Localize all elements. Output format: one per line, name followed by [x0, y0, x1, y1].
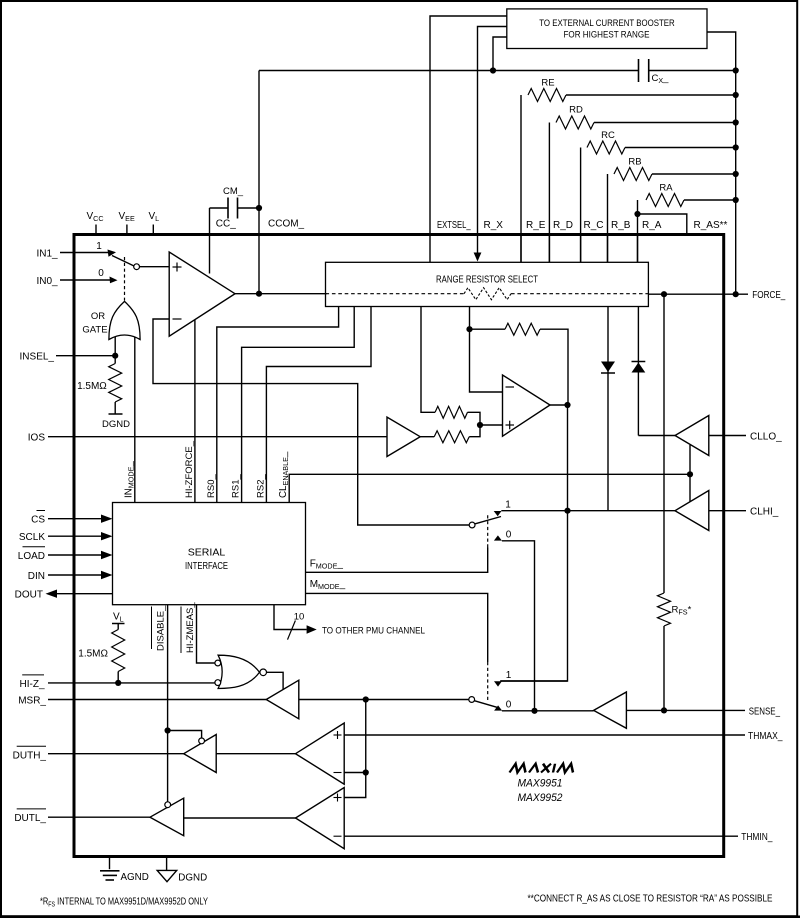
svg-text:10: 10 — [294, 612, 305, 623]
junction dot FORCE/RFS — [661, 291, 667, 297]
junction dot gain resistors — [477, 422, 483, 428]
svg-text:THMAX_: THMAX_ — [748, 731, 783, 742]
wire CCOM_ — [258, 71, 260, 294]
wire HI-ZFORCE_ — [194, 320, 196, 503]
svg-text:AGND: AGND — [121, 872, 149, 883]
wire RS0_ — [217, 307, 339, 503]
wire THMAX comp minus — [344, 772, 366, 774]
wire clamp low net — [638, 435, 675, 437]
buffer IOS — [387, 417, 420, 456]
svg-text:DUTH_: DUTH_ — [13, 751, 47, 762]
buffer MSR — [266, 680, 299, 719]
svg-text:R_E: R_E — [526, 220, 546, 231]
resistor feedback — [470, 328, 506, 330]
main chip box outline — [74, 235, 724, 857]
svg-text:R_AS**: R_AS** — [694, 220, 728, 231]
MAXIM logo — [510, 764, 576, 773]
pin THMIN_ — [344, 835, 738, 837]
junction dot feedback resistor — [466, 326, 472, 332]
svg-text:DOUT: DOUT — [15, 590, 43, 601]
junction dot comparator minus — [363, 769, 369, 775]
input switch pivot — [134, 264, 140, 270]
wire booster to right bus — [707, 32, 736, 294]
svg-text:IOS: IOS — [28, 433, 46, 444]
wire RS2_ — [266, 307, 371, 503]
junction dot sense/fmode0 — [531, 708, 537, 714]
resistor RC — [580, 148, 582, 263]
input switch control dashed line — [124, 257, 126, 301]
junction dot DISABLE — [165, 727, 171, 733]
svg-text:CLHI_: CLHI_ — [750, 507, 779, 518]
svg-text:INTERFACE: INTERFACE — [185, 561, 228, 572]
arrow into range resistor select — [474, 253, 482, 262]
wire booster to EXTSEL_ — [430, 16, 507, 262]
OR gate right input wire (INMODE_) — [134, 337, 136, 503]
svg-text:TO OTHER PMU CHANNEL: TO OTHER PMU CHANNEL — [322, 625, 426, 636]
junction dot RD/right bus — [733, 119, 739, 125]
wire RFS to SENSE — [663, 626, 665, 710]
svg-text:0: 0 — [506, 700, 512, 711]
wire NOR output to MSR buffer enable — [267, 672, 284, 690]
junction dot RB/right bus — [733, 171, 739, 177]
wire THMIN comp out — [184, 817, 296, 819]
svg-text:R_A: R_A — [642, 220, 662, 231]
junction dot CCOM/booster — [490, 67, 496, 73]
svg-text:MAX9951: MAX9951 — [518, 778, 563, 790]
svg-text:OR: OR — [91, 311, 105, 322]
NOR gate — [218, 655, 259, 688]
svg-text:1: 1 — [506, 670, 512, 681]
junction dot CX/right bus — [733, 67, 739, 73]
capacitor CM_ — [210, 207, 229, 209]
junction dot CM/CCOM — [256, 205, 262, 211]
comparator THMIN — [296, 788, 345, 849]
RRS top pins — [520, 236, 522, 262]
svg-text:DGND: DGND — [178, 873, 207, 884]
svg-text:R_B: R_B — [611, 220, 631, 231]
wire measure amp output — [550, 404, 568, 406]
svg-text:R_C: R_C — [584, 220, 604, 231]
wire MMODE contact0 to sense net — [502, 710, 594, 712]
svg-text:1.5MΩ: 1.5MΩ — [78, 649, 108, 660]
wire force amp output — [235, 293, 327, 295]
svg-text:RS2_: RS2_ — [255, 474, 266, 498]
svg-text:SERIAL: SERIAL — [188, 548, 226, 559]
buffer SENSE — [594, 692, 627, 728]
pin VEE — [126, 225, 128, 235]
wire diode D1 — [607, 307, 609, 511]
svg-text:RC: RC — [601, 130, 615, 141]
junction dot RA/R_AS — [634, 211, 640, 217]
svg-text:MAX9952: MAX9952 — [518, 792, 563, 804]
buffer CLLO — [675, 416, 709, 456]
junction dot CLENABLE — [687, 471, 693, 477]
svg-text:CCOM_: CCOM_ — [268, 219, 305, 230]
resistor upper gain — [435, 406, 467, 418]
label RS0_ (rotated) — [206, 474, 217, 498]
DUTL enable bubble — [165, 802, 171, 808]
wire force amp minus feedback — [153, 319, 469, 525]
wire FORCE to RFS — [663, 294, 665, 593]
switch MMODE contact 1 — [494, 681, 502, 686]
svg-text:CM_: CM_ — [223, 186, 244, 197]
svg-text:DISABLE_: DISABLE_ — [156, 605, 167, 651]
junction dot RC/right bus — [733, 144, 739, 150]
label CLENABLE_ (rotated) — [278, 451, 290, 498]
capacitor CX_ — [638, 59, 640, 82]
input switch arm — [112, 256, 134, 267]
wire MMODE contact1 to measure out — [500, 680, 567, 682]
force amp + sign — [173, 266, 182, 268]
bus slash — [288, 621, 296, 640]
RRS internal resistor symbol — [464, 288, 511, 300]
wire booster to CCOM node — [493, 37, 507, 71]
wire CC_ — [209, 208, 211, 274]
wire MSR buffer input — [299, 699, 469, 701]
svg-text:FORCE_: FORCE_ — [752, 290, 785, 301]
switch FMODE pivot — [469, 522, 475, 528]
svg-text:MSR_: MSR_ — [18, 696, 46, 707]
force amp - sign — [173, 318, 182, 320]
junction dot MSR/comparators — [363, 696, 369, 702]
svg-text:LOAD: LOAD — [18, 551, 45, 562]
label INMODE_ (rotated) — [123, 461, 135, 498]
switch MMODE arm — [474, 701, 497, 708]
svg-text:SCLK: SCLK — [19, 532, 45, 543]
svg-text:HI-ZFORCE_: HI-ZFORCE_ — [184, 440, 195, 498]
buffer DUTL — [150, 798, 184, 836]
svg-text:1: 1 — [96, 241, 102, 252]
svg-text:FOR HIGHEST RANGE: FOR HIGHEST RANGE — [564, 30, 650, 40]
svg-text:RS1_: RS1_ — [231, 474, 242, 498]
buffer DUTH — [184, 735, 217, 773]
wire RRS to mid op-amp - — [470, 307, 503, 393]
svg-text:GATE: GATE — [82, 325, 107, 336]
diode D1 — [601, 362, 615, 373]
THMAX comp - sign — [334, 772, 342, 774]
svg-text:RD: RD — [569, 105, 583, 116]
junction dot HI-Z/pullup — [115, 680, 121, 686]
junction dot SENSE/RFS — [661, 707, 667, 713]
pin CLLO_ — [709, 435, 746, 437]
OR gate left input wire — [114, 337, 116, 356]
wire HI-ZMEAS_ — [197, 605, 215, 663]
overline DISABLE_ — [151, 607, 153, 650]
wire RS1_ — [242, 307, 355, 503]
ground DGND (INSEL) — [109, 413, 123, 415]
switch FMODE contact 1 — [494, 511, 502, 516]
switch FMODE contact 0 — [494, 535, 502, 540]
wire FMODE contact1 to clamp-hi — [501, 510, 567, 512]
wire clamp high net — [568, 510, 676, 512]
resistor RB — [607, 174, 609, 262]
junction dot RA/right bus — [733, 197, 739, 203]
bus to other PMU channel — [274, 605, 307, 630]
measure amp - sign — [506, 386, 515, 388]
svg-text:CC_: CC_ — [216, 219, 236, 230]
junction dot measure output — [564, 402, 570, 408]
wire THMAX comp out — [216, 753, 295, 755]
svg-text:RB: RB — [628, 157, 641, 168]
THMIN comp - sign — [334, 835, 342, 837]
switch MMODE pivot — [469, 697, 475, 703]
svg-text:1: 1 — [505, 500, 511, 511]
junction dot FORCE/right bus — [733, 291, 739, 297]
junction dot RE/right bus — [733, 92, 739, 98]
label RS2_ (rotated) — [255, 474, 266, 498]
overline HI-ZMEAS_ — [180, 607, 182, 654]
pin THMAX_ — [344, 734, 745, 736]
resistor RA — [637, 200, 639, 262]
switch contact IN0 — [110, 277, 118, 284]
NOR input bubble upper — [215, 660, 221, 666]
junction dot INSEL — [112, 353, 118, 359]
svg-text:SENSE_: SENSE_ — [749, 706, 781, 717]
switch FMODE control dashed — [487, 515, 489, 548]
resistor 1.5Mohm (INSEL) — [114, 356, 116, 364]
resistor lower gain — [420, 436, 434, 438]
svg-text:HI-Z_: HI-Z_ — [20, 679, 45, 690]
svg-text:EXTSEL_: EXTSEL_ — [437, 220, 471, 231]
NOR output bubble — [260, 669, 267, 676]
svg-text:IN0_: IN0_ — [36, 276, 58, 287]
resistor RD — [548, 123, 550, 263]
svg-text:1.5MΩ: 1.5MΩ — [77, 381, 107, 392]
svg-text:RE: RE — [541, 78, 554, 89]
svg-text:0: 0 — [98, 268, 104, 279]
resistor 1.5Mohm (HI-Z) — [117, 624, 119, 630]
svg-text:R_D: R_D — [553, 220, 573, 231]
wire sense to comparators — [344, 700, 366, 798]
wire diode D2 — [637, 307, 639, 436]
DUTH enable bubble — [199, 738, 205, 744]
label HI-ZMEAS_ (rotated) — [185, 602, 196, 653]
wire measure output down — [500, 405, 567, 681]
NOR input bubble lower — [215, 680, 221, 686]
svg-text:RS0_: RS0_ — [206, 474, 217, 498]
ground DGND — [166, 857, 168, 871]
switch MMODE control dashed — [487, 662, 489, 702]
wire R_AS — [638, 214, 687, 236]
wire enable to CLLO — [689, 445, 691, 474]
wire enable to CLHI — [689, 474, 691, 501]
label DISABLE_ (rotated) — [156, 605, 167, 651]
svg-text:0: 0 — [506, 530, 512, 541]
pin VCC — [95, 225, 97, 235]
switch FMODE arm — [475, 517, 501, 524]
svg-text:THMIN_: THMIN_ — [741, 832, 773, 843]
svg-text:IN1_: IN1_ — [36, 249, 58, 260]
ground AGND — [109, 857, 111, 870]
junction dot CCOM/output — [256, 291, 262, 297]
measure amp + sign — [506, 424, 515, 426]
svg-text:RANGE RESISTOR SELECT: RANGE RESISTOR SELECT — [436, 275, 539, 286]
svg-text:CLLO_: CLLO_ — [750, 432, 782, 443]
svg-text:R_X: R_X — [484, 220, 504, 231]
diode D2 — [632, 361, 646, 363]
resistor RFS — [658, 593, 671, 626]
wire switch to force amp + — [139, 266, 169, 268]
range resistor select box — [326, 262, 649, 306]
svg-text:INSEL_: INSEL_ — [20, 352, 55, 363]
buffer CLHI — [675, 491, 709, 531]
wire FMODE contact0 down — [502, 541, 535, 711]
wire CCOM_ to CX_ capacitor — [259, 70, 639, 72]
OR gate — [109, 301, 140, 339]
svg-text:DGND: DGND — [102, 419, 130, 430]
op-amp force amplifier — [169, 252, 235, 336]
wire FORCE_ — [648, 293, 748, 295]
wire RRS to upper gain resistor — [421, 307, 435, 413]
label HI-ZFORCE_ (rotated) — [184, 440, 195, 498]
wire to mid op-amp + — [480, 424, 503, 426]
switch contact IN1 — [108, 250, 117, 257]
THMAX comp + sign — [334, 734, 342, 736]
RRS dashed line — [326, 293, 465, 295]
wire booster to R_X with arrow — [478, 27, 507, 254]
THMIN comp + sign — [334, 797, 342, 799]
junction dot clamp hi net — [564, 508, 570, 514]
svg-text:DUTL_: DUTL_ — [14, 813, 46, 824]
switch MMODE contact 0 — [494, 705, 502, 710]
wire CLENABLE_ — [289, 474, 690, 502]
pin VL — [152, 225, 154, 235]
resistor RE — [520, 95, 522, 262]
comparator THMAX — [296, 723, 345, 784]
svg-text:TO EXTERNAL CURRENT BOOSTER: TO EXTERNAL CURRENT BOOSTER — [539, 18, 675, 28]
pin CLHI_ — [709, 510, 746, 512]
svg-text:RA: RA — [659, 183, 673, 194]
op-amp measure amplifier — [503, 375, 551, 436]
wire DISABLE to DUTH bubble — [168, 731, 202, 738]
svg-text:CS: CS — [31, 515, 45, 526]
svg-text:HI-ZMEAS_: HI-ZMEAS_ — [185, 602, 196, 653]
label RS1_ (rotated) — [231, 474, 242, 498]
external current booster box — [507, 9, 707, 49]
pin SENSE_ — [626, 709, 745, 711]
svg-text:DIN: DIN — [28, 571, 45, 582]
wire DISABLE_ — [167, 605, 169, 802]
svg-text:*RFS INTERNAL TO MAX9951D/MAX9: *RFS INTERNAL TO MAX9951D/MAX9952D ONLY — [40, 897, 208, 909]
serial interface box — [113, 503, 306, 605]
svg-text:**CONNECT R_AS AS CLOSE TO RES: **CONNECT R_AS AS CLOSE TO RESISTOR “RA”… — [528, 894, 773, 905]
